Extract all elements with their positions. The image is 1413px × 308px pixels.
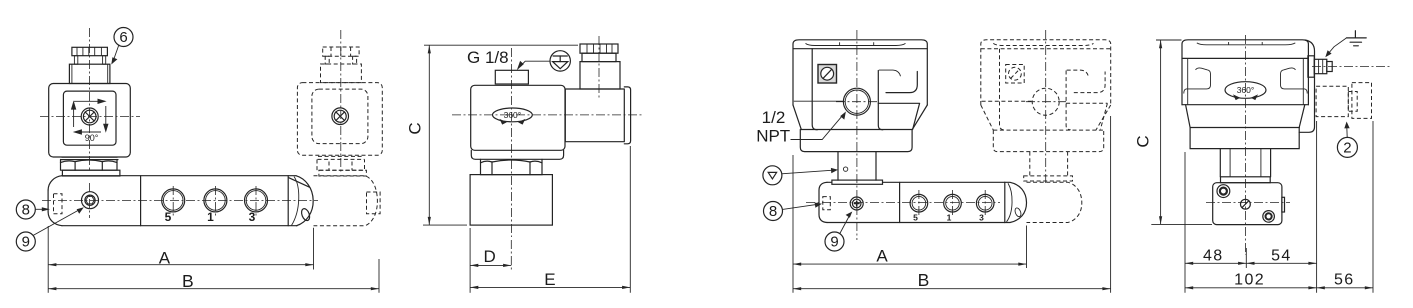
svg-text:D: D xyxy=(483,247,495,266)
svg-text:48: 48 xyxy=(1203,247,1224,264)
svg-text:C: C xyxy=(405,122,424,134)
svg-text:A: A xyxy=(876,246,888,265)
svg-text:56: 56 xyxy=(1334,272,1355,289)
svg-text:1/2: 1/2 xyxy=(762,108,786,127)
svg-text:3: 3 xyxy=(979,213,984,223)
svg-text:8: 8 xyxy=(22,201,30,218)
svg-text:B: B xyxy=(182,271,194,291)
svg-text:360°: 360° xyxy=(1237,85,1255,95)
svg-text:360°: 360° xyxy=(504,110,522,120)
svg-text:B: B xyxy=(918,270,930,290)
svg-text:1: 1 xyxy=(947,213,952,223)
svg-text:6: 6 xyxy=(119,29,127,46)
svg-text:3: 3 xyxy=(249,210,256,224)
svg-text:A: A xyxy=(159,248,171,267)
svg-text:1: 1 xyxy=(207,210,214,224)
svg-text:2: 2 xyxy=(1343,139,1351,156)
svg-text:C: C xyxy=(1134,135,1153,147)
svg-text:5: 5 xyxy=(913,213,918,223)
svg-text:9: 9 xyxy=(830,233,838,250)
svg-text:102: 102 xyxy=(1234,272,1265,289)
svg-text:5: 5 xyxy=(165,210,172,224)
svg-text:NPT: NPT xyxy=(756,127,790,146)
svg-text:8: 8 xyxy=(769,203,777,220)
svg-text:90°: 90° xyxy=(85,133,99,143)
svg-text:G 1/8: G 1/8 xyxy=(467,48,509,67)
svg-text:9: 9 xyxy=(22,233,30,250)
svg-text:E: E xyxy=(544,270,555,289)
svg-text:54: 54 xyxy=(1271,247,1292,264)
